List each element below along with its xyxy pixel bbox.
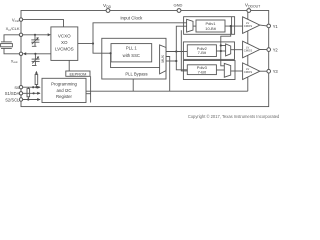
- wire mux M0 lower output stub: [166, 60, 176, 62]
- wire mux M0 select stub down to control bus: [166, 57, 170, 92]
- wire mux M0 output to Pdiv2: [166, 51, 187, 53]
- resistor R2: [27, 89, 30, 97]
- node A: [92, 42, 94, 44]
- crystal X1: [1, 41, 12, 43]
- wire bypass drop through row 2: [220, 42, 222, 60]
- svg-text:LVCMOS: LVCMOS: [55, 46, 74, 51]
- node C: [175, 50, 177, 52]
- wire S2/SCL: [23, 99, 40, 101]
- wire S1/SDA: [23, 92, 40, 94]
- node F: [220, 50, 222, 52]
- svg-text:Copyright © 2017, Texas Instru: Copyright © 2017, Texas Instruments Inco…: [188, 114, 280, 119]
- terminal Xout: [19, 52, 22, 55]
- node varactor C2 tap: [34, 53, 36, 55]
- node G: [175, 60, 177, 62]
- mux M0 (PLL / bypass select): [160, 45, 166, 74]
- svg-text:PLL Bypass: PLL Bypass: [125, 72, 147, 77]
- node varactor C1 tap: [34, 34, 36, 36]
- output buffer Y1 (LV CMOS): [243, 17, 260, 34]
- svg-text:VCtrl: VCtrl: [12, 17, 20, 23]
- wire mux M2 to Y2 buffer: [231, 49, 243, 51]
- bypass line under PLL1 (redraw over box fill): [111, 53, 160, 67]
- wire VCtrl to VCXO: [23, 20, 64, 27]
- EEPROM block: [66, 71, 90, 76]
- wire Pdiv1 output to Y1 buffer: [225, 25, 243, 27]
- wire into Pdiv2 (redraw inside box): [183, 51, 187, 53]
- svg-text:Y3: Y3: [273, 69, 279, 74]
- svg-text:Programming: Programming: [51, 82, 77, 87]
- svg-text:GND: GND: [174, 3, 183, 8]
- terminal VCtrl: [19, 18, 22, 21]
- varactor C2: [34, 54, 36, 59]
- svg-text:MUX: MUX: [161, 54, 165, 62]
- row 2 group box: [183, 42, 234, 60]
- VCXO XO LVCMOS block: [51, 27, 78, 61]
- resistor R1: [35, 75, 38, 85]
- terminal Y2: [267, 48, 271, 52]
- svg-text:10-Bit: 10-Bit: [205, 26, 216, 31]
- svg-text:PLL 1: PLL 1: [126, 45, 137, 50]
- wire Pdiv1 output down to Y2/Y3 muxes: [221, 26, 231, 66]
- wire Xin/CLK into VCXO: [23, 34, 50, 36]
- wire VCXO to EEPROM: [68, 60, 70, 71]
- wire input clock bypass (up and over): [93, 23, 187, 44]
- divider Pdiv2: [187, 45, 216, 57]
- svg-text:VDD: VDD: [103, 3, 112, 9]
- svg-text:7-Bit: 7-Bit: [198, 50, 207, 55]
- wire Xout from VCXO: [26, 53, 51, 55]
- svg-text:Xout: Xout: [11, 58, 18, 64]
- terminal Y3: [267, 69, 271, 73]
- wire node A down to PLL input: [93, 44, 111, 54]
- wire row control daisy line: [181, 30, 187, 71]
- output buffer Y2 (LV CMOS): [243, 41, 260, 58]
- mux M2: [226, 44, 231, 56]
- svg-text:Xin/CLK: Xin/CLK: [6, 26, 20, 32]
- terminal Y1: [267, 24, 271, 28]
- row 3 group box: [183, 61, 235, 80]
- node D: [230, 25, 232, 27]
- mux M1: [187, 19, 193, 32]
- Programming and I2C Register block: [42, 78, 86, 102]
- svg-text:CMOS: CMOS: [244, 24, 253, 28]
- S0 pull resistor R1 arrow: [35, 71, 38, 74]
- PLL 1 with SSC block: [111, 44, 152, 62]
- wire to mux M2 upper input: [221, 45, 226, 47]
- svg-text:Y2: Y2: [273, 48, 279, 53]
- wire crystal to Xout: [4, 48, 19, 53]
- svg-text:EEPROM: EEPROM: [69, 71, 86, 76]
- wires into row1 mux (redraw): [184, 22, 187, 24]
- terminal VDD: [106, 9, 110, 13]
- svg-text:S0: S0: [14, 85, 20, 90]
- svg-text:VDDOUT: VDDOUT: [245, 3, 260, 9]
- wire mux M3 to Y3 buffer: [231, 70, 243, 72]
- svg-text:7-Bit: 7-Bit: [198, 70, 207, 75]
- terminal VDDOUT: [247, 9, 251, 13]
- svg-text:XO: XO: [61, 40, 68, 45]
- wire mux M1 to Pdiv1: [193, 25, 196, 27]
- node E: [220, 44, 222, 46]
- svg-text:Y1: Y1: [273, 24, 279, 29]
- terminal Xin/CLK: [19, 33, 22, 36]
- control bus: [86, 90, 248, 92]
- svg-text:and I2C: and I2C: [56, 88, 71, 93]
- output buffer Y3 (LV CMOS): [243, 63, 260, 80]
- wire Pdiv2 output to mux M2: [216, 50, 225, 52]
- wire VCXO output to node A: [78, 43, 93, 45]
- wire distribution vertical: [176, 26, 187, 70]
- terminal S2/SCL: [19, 98, 22, 101]
- wire EEPROM side: [90, 76, 92, 102]
- wire into Pdiv3 (redraw): [183, 69, 187, 71]
- arrowhead into Xout terminal: [23, 52, 26, 55]
- wire PLL to control bus: [132, 79, 134, 91]
- varactor C1: [34, 35, 36, 40]
- PLL outer block: [102, 38, 166, 79]
- node B PLL input / bypass tap: [110, 52, 112, 54]
- wire S0: [23, 86, 40, 88]
- terminal S1/SDA: [19, 92, 22, 95]
- wire Xin/CLK to crystal: [4, 35, 19, 42]
- terminal S0: [19, 86, 22, 89]
- svg-text:CMOS: CMOS: [244, 70, 253, 74]
- svg-text:S2/SCL: S2/SCL: [5, 97, 20, 102]
- divider Pdiv1: [196, 20, 225, 32]
- wire Pdiv3 output to mux M3: [216, 69, 224, 71]
- divider Pdiv3: [187, 65, 216, 75]
- wire PLL bypass path: [111, 53, 160, 67]
- mux M3: [224, 63, 230, 77]
- arrowhead into VCXO: [48, 33, 51, 36]
- svg-text:Input Clock: Input Clock: [120, 16, 143, 21]
- svg-text:CMOS: CMOS: [244, 48, 253, 52]
- chip outline box: [21, 11, 269, 107]
- svg-text:Register: Register: [56, 94, 73, 99]
- svg-text:S1/SDA: S1/SDA: [5, 91, 20, 96]
- svg-text:VCXO: VCXO: [58, 34, 71, 39]
- terminal GND: [177, 9, 181, 13]
- row 1 group box: [184, 17, 235, 35]
- wire VDDOUT supply chain vertical (behind output buffers): [247, 11, 249, 92]
- wire bypass drop to mux M3 upper input: [221, 61, 225, 66]
- row 1 inner partition line: [231, 17, 233, 35]
- svg-text:with SSC: with SSC: [123, 53, 140, 58]
